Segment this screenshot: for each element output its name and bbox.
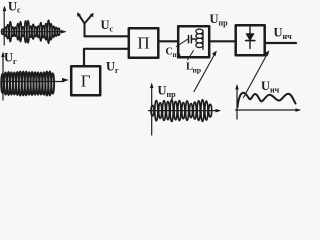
wire detector output (Unch) (265, 42, 296, 44)
wire oscillator to mixer (Ug) (84, 49, 129, 66)
IF filter box (178, 26, 209, 57)
svg-text:пр: пр (193, 66, 202, 75)
leader line Cpr label to capacitor (177, 39, 188, 46)
svg-text:U: U (210, 12, 219, 26)
inductor Lpr coil (196, 29, 203, 49)
svg-text:U: U (106, 60, 115, 74)
svg-text:с: с (110, 25, 114, 34)
node Uc waveform axes (2, 8, 65, 45)
svg-text:нч: нч (270, 86, 280, 95)
antenna (79, 14, 93, 36)
wire mixer to IF filter (158, 40, 178, 42)
node Upr IF signal waveform (151, 100, 212, 122)
diode inside detector (249, 27, 251, 35)
svg-text:с: с (17, 6, 21, 15)
svg-text:г: г (115, 66, 119, 75)
svg-text:U: U (8, 0, 17, 14)
leader arrow to Upr wire (194, 54, 215, 92)
node Unch axis arrowheads (235, 84, 239, 90)
detector box (236, 25, 265, 55)
capacitor Cpr plates (189, 36, 196, 43)
svg-text:U: U (158, 84, 167, 98)
svg-text:г: г (13, 57, 17, 66)
svg-text:U: U (101, 18, 110, 32)
svg-text:U: U (274, 26, 283, 40)
wire antenna to mixer (Uc) (85, 35, 129, 37)
node Upr waveform axes (149, 85, 220, 135)
svg-text:нч: нч (283, 32, 293, 41)
wire IF filter to detector (209, 40, 236, 42)
svg-text:пр: пр (167, 90, 177, 99)
svg-text:П: П (137, 34, 149, 53)
leader line Lpr label to coil (188, 51, 194, 61)
node Uc axis arrowheads (3, 6, 7, 12)
node Upr axis arrowheads (150, 83, 154, 89)
svg-text:Г: Г (81, 72, 91, 91)
oscillator box G (Г) (71, 66, 100, 95)
node Uc modulated signal waveform (2, 20, 60, 43)
mixer box P (П) (129, 28, 159, 58)
svg-text:пр: пр (219, 19, 229, 28)
antenna tip barbs (77, 12, 81, 17)
node Unch waveform axes (236, 86, 300, 119)
svg-text:U: U (4, 51, 13, 65)
node Unch low-frequency signal waveform (238, 93, 296, 107)
svg-text:U: U (261, 79, 270, 93)
node Ug waveform axes (2, 54, 65, 100)
node Ug oscillator signal waveform (1, 71, 54, 95)
node Ug axis arrowheads (1, 52, 5, 58)
leader arrow to Unch wire (244, 54, 268, 98)
svg-text:пр: пр (173, 51, 181, 59)
